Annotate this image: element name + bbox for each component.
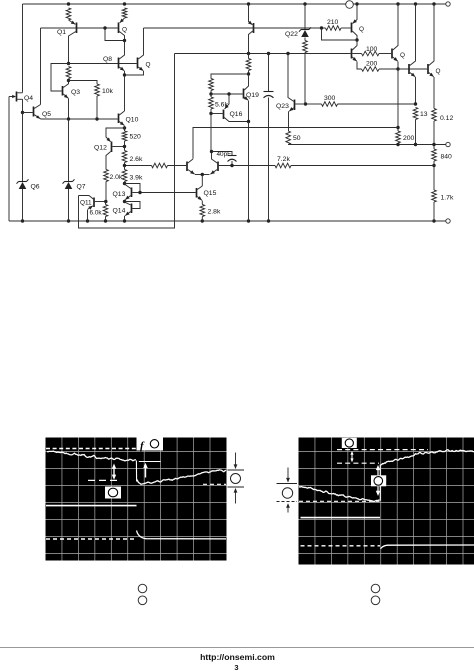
right scope mid solid trace <box>301 517 381 519</box>
svg-text:Q8: Q8 <box>103 56 112 63</box>
node bottom rail junction x=434 <box>432 219 435 222</box>
resistor 7.2k <box>275 163 291 168</box>
svg-text:300: 300 <box>324 95 336 102</box>
transistor Q output NPN #2 <box>408 64 410 74</box>
svg-text:Q16: Q16 <box>230 111 243 118</box>
transistor Q driver NPN <box>351 49 353 59</box>
left scope f marker box <box>137 438 164 451</box>
transistor diff pair right <box>217 162 219 172</box>
right oscillogram grid <box>299 438 474 565</box>
svg-text:Q: Q <box>400 52 405 59</box>
terminal output pin rail B <box>446 142 450 146</box>
wire Q19 base <box>211 93 243 95</box>
node junction x398 wireA <box>396 126 399 129</box>
svg-text:Q15: Q15 <box>204 190 217 197</box>
svg-text:840: 840 <box>441 154 453 161</box>
resistor 200 vertical <box>396 131 401 143</box>
wire A y127.5 from diff collector to output base <box>193 128 398 159</box>
node top rail junction x=434 <box>432 2 435 5</box>
node Q3 collector junction <box>67 79 70 82</box>
node diff right collector junction <box>210 150 213 153</box>
svg-text:520: 520 <box>130 134 142 141</box>
right scope external measure line <box>277 483 298 485</box>
right scope external dashed line <box>277 501 298 503</box>
resistor 210 <box>326 26 342 31</box>
node bottom rail junction x=105.5 <box>104 219 107 222</box>
transistor Q11 (PNP) <box>93 198 95 208</box>
terminal top-right output pin <box>446 2 450 6</box>
right scope measure arrow through box <box>377 467 379 475</box>
node VCC terminal circle on top rail <box>346 1 354 9</box>
resistor 0.12 <box>432 109 437 122</box>
node bottom rail junction x=248.5 <box>247 219 250 222</box>
node diff-left base junction <box>123 164 126 167</box>
node junction y104 left <box>304 102 307 105</box>
wire output rail B y144.5 <box>288 144 446 146</box>
transistor Q10 <box>118 114 120 124</box>
figure reference circle <box>138 584 147 593</box>
resistor diode-PNP emitter degeneration <box>122 8 127 18</box>
figure reference circle <box>138 596 147 605</box>
node top rail junction x=415.5 <box>414 2 417 5</box>
right scope circle marker box top <box>342 438 357 448</box>
resistor 2.6k <box>124 147 126 151</box>
node top rail junction x=124.5 <box>123 2 126 5</box>
node bottom rail junction x=268.5 <box>267 219 270 222</box>
wire Q3 emitter down to y119 <box>68 98 70 119</box>
svg-text:Q3: Q3 <box>71 89 80 96</box>
node top rail junction x=398 <box>396 2 399 5</box>
left scope bottom trace after step <box>137 531 227 539</box>
node junction x268.5 <box>267 52 270 55</box>
node collector tie junction <box>123 39 126 42</box>
wire left rail down to Q4 drain <box>22 4 24 93</box>
left oscillogram grid <box>46 438 227 561</box>
svg-text:3: 3 <box>234 663 238 671</box>
svg-text:Q11: Q11 <box>80 200 92 207</box>
svg-text:3.9k: 3.9k <box>130 175 143 182</box>
left scope measure arrow double <box>113 466 115 477</box>
wire 7.2k feedback y165.5 <box>219 165 275 167</box>
node Q13 collector junction <box>123 182 126 185</box>
capacitor series on x268.5 column <box>268 54 270 92</box>
node bottom rail junction x=22.5 <box>21 219 24 222</box>
resistor 10k <box>95 84 100 96</box>
svg-text:13: 13 <box>420 111 428 118</box>
wire L feedback to collector node <box>322 28 358 40</box>
node Q8 emitter junction <box>123 73 126 76</box>
wire Q16 base column down to diff collector <box>210 114 212 152</box>
wire diff tail to Q15 <box>201 175 203 187</box>
resistor 6.0k <box>105 202 107 205</box>
terminal bottom-right pin <box>446 219 450 223</box>
resistor 100 horizontal <box>352 53 361 55</box>
node Q12 base junction <box>123 145 126 148</box>
right scope small double arrow <box>351 453 353 462</box>
node top rail junction x=305 <box>303 2 306 5</box>
node rail B junction x=434 <box>432 143 435 146</box>
right scope dashed level line <box>299 500 380 502</box>
resistor 13 <box>413 108 418 120</box>
svg-text:Q10: Q10 <box>126 117 139 124</box>
node Q5 gate junction <box>21 111 24 114</box>
svg-text:0.12: 0.12 <box>440 115 453 122</box>
wire diode tie base-collector <box>105 28 125 41</box>
wire Q5 source rail y119 to Q10 base <box>41 118 118 120</box>
transistor Q19 <box>243 89 245 99</box>
node junction Q16 emitter tap <box>227 92 230 95</box>
wire PNP mirror base rail y28 (Q1 base) <box>41 27 118 29</box>
left scope external circle marker <box>231 474 241 484</box>
right scope lower trace left <box>299 487 380 502</box>
footer rule <box>0 647 474 649</box>
resistor 520 <box>124 128 126 131</box>
transistor Q (diode-connected PNP mirror) <box>120 18 125 23</box>
transistor Q5 (JFET input) <box>33 107 35 117</box>
node junction y104 right <box>414 102 417 105</box>
zener Q22 with resistor <box>304 4 306 30</box>
node bottom rail junction x=124.5 <box>123 219 126 222</box>
svg-text:50: 50 <box>293 135 301 142</box>
svg-text:1.7k: 1.7k <box>441 195 454 202</box>
left scope mid solid trace <box>46 505 137 507</box>
node rail B junction x=415.5 <box>414 143 417 146</box>
resistor 50 <box>286 131 291 145</box>
resistor 5.6k <box>210 94 212 97</box>
svg-text:Q: Q <box>122 27 127 34</box>
node junction x248.5 <box>247 52 250 55</box>
resistor 2.0k <box>104 170 109 182</box>
svg-text:2.0k: 2.0k <box>110 174 123 181</box>
transistor diff pair left <box>186 162 188 172</box>
node junction Q19 collector node <box>247 72 250 75</box>
svg-text:Q: Q <box>436 68 441 75</box>
node junction Q3 emitter / y119 <box>67 117 70 120</box>
wire y69 to output bases <box>398 68 427 70</box>
left scope step edge <box>135 461 137 482</box>
right scope dashed reference rows <box>337 449 428 451</box>
transistor Q (cascode pair right) <box>137 58 139 69</box>
svg-text:http://onsemi.com: http://onsemi.com <box>200 652 275 662</box>
wire Q4 gate column down to bottom rail <box>8 97 10 222</box>
wire x248.5 down to bottom rail <box>248 122 250 222</box>
figure reference circle <box>371 596 380 605</box>
svg-text:Q19: Q19 <box>246 92 259 99</box>
wire Q8 emitters down to Q10 collector <box>124 75 126 111</box>
resistor 3.9k <box>124 166 126 170</box>
wire to 10k resistor <box>69 81 98 85</box>
node Q11 base junction <box>104 200 107 203</box>
resistor between Q3 base and collector <box>66 67 71 79</box>
transistor Q output NPN #3 <box>427 64 429 74</box>
wire y104 with resistor 300 <box>306 103 322 105</box>
node junction Q16 base node <box>209 112 212 115</box>
wire top supply rail <box>23 3 446 5</box>
node 40pF bottom junction <box>230 164 233 167</box>
svg-text:Q1: Q1 <box>57 29 66 36</box>
resistor upper of 5.6k chain <box>209 79 214 91</box>
node Q10 emitter junction <box>123 126 126 129</box>
svg-text:Q14: Q14 <box>113 208 126 215</box>
svg-text:10k: 10k <box>102 88 114 95</box>
svg-text:Q22: Q22 <box>285 31 298 38</box>
transistor Q top-right PNP driver <box>351 23 353 33</box>
wire Q13 collector-base tie <box>125 184 141 193</box>
node diff emitters junction <box>201 173 204 176</box>
right scope external arrow down <box>287 468 289 482</box>
svg-text:Q4: Q4 <box>24 95 33 102</box>
node top rail junction x=68.5 <box>67 2 70 5</box>
svg-text:Q: Q <box>146 62 151 69</box>
left scope measure arrow up <box>145 467 147 478</box>
left scope circle marker box <box>105 487 121 499</box>
left scope right-edge dashes <box>203 483 226 485</box>
transistor Q4 (JFET input) <box>16 92 18 102</box>
right scope step edge <box>379 465 381 501</box>
wire Q5 drain up to PNP mirror base rail <box>40 28 42 105</box>
svg-text:210: 210 <box>327 19 339 26</box>
transistor Q output NPN #1 <box>391 49 393 59</box>
left scope upper trace before step <box>47 451 136 461</box>
node rail B junction x=398 <box>396 143 399 146</box>
svg-text:Q23: Q23 <box>276 103 289 110</box>
node base tie junction <box>103 26 106 29</box>
left scope top dashed reference <box>46 448 137 450</box>
left scope step-top reference line <box>139 461 161 463</box>
zener Q6 <box>22 178 24 182</box>
wire bottom rail <box>9 220 446 222</box>
node bottom rail junction x=87.5 <box>86 219 89 222</box>
right scope upper trace right <box>381 450 474 465</box>
svg-text:Q12: Q12 <box>94 145 107 152</box>
right oscillogram background <box>299 438 474 565</box>
resistor 840 <box>433 145 435 150</box>
node bottom rail junction x=202.3 <box>201 219 204 222</box>
resistor Q1 emitter degeneration <box>66 8 71 20</box>
capacitor 40pF <box>212 152 233 156</box>
right scope external circle marker <box>282 488 292 498</box>
svg-text:Q: Q <box>359 26 364 33</box>
svg-text:Q6: Q6 <box>31 184 40 191</box>
figure reference circle <box>371 584 380 593</box>
svg-text:200: 200 <box>403 135 415 142</box>
right scope external arrow up <box>287 504 289 513</box>
node junction x398 y69 <box>396 67 399 70</box>
transistor Q23 (PNP) <box>288 54 294 102</box>
right scope bottom dashed trace <box>301 545 381 547</box>
wire Q8 base rail y63.5 <box>69 63 137 65</box>
svg-text:Q5: Q5 <box>42 111 51 118</box>
svg-text:2.8k: 2.8k <box>208 209 221 216</box>
node Q13 base junction <box>138 191 141 194</box>
svg-text:2.6k: 2.6k <box>130 156 143 163</box>
right scope bottom trace after step <box>381 545 474 549</box>
svg-text:Q7: Q7 <box>77 184 86 191</box>
svg-text:6.0k: 6.0k <box>90 210 103 217</box>
svg-text:7.2k: 7.2k <box>277 156 290 163</box>
left scope level ticks <box>88 479 118 481</box>
wire Q4 source to Q5 gate and Q6 column <box>22 99 24 112</box>
svg-text:100: 100 <box>366 46 378 53</box>
wire right PNP base rail y28 <box>144 27 326 29</box>
node Q13/Q14 junction <box>123 200 126 203</box>
svg-text:40pF: 40pF <box>217 151 232 158</box>
svg-text:200: 200 <box>366 61 378 68</box>
node Q23 collector top junction <box>286 52 289 55</box>
node 210 left junction <box>320 26 323 29</box>
transistor Q13 (diode connected) <box>125 184 131 189</box>
transistor Q8 (cascode) <box>118 58 120 69</box>
left scope external measure lines <box>228 469 245 471</box>
transistor Q3 <box>62 86 64 96</box>
node junction Q19 emitter / Q16 collector <box>247 120 250 123</box>
transistor Q15 <box>196 188 198 198</box>
node Q1 collector / Q8 base rail junction <box>67 62 70 65</box>
node junction 10k bottom / y119 <box>95 117 98 120</box>
resistor 2.8k <box>200 205 205 217</box>
transistor Q1 (PNP mirror) <box>69 20 76 24</box>
node top rail junction x=248.5 <box>247 2 250 5</box>
node junction Q19 base node <box>209 92 212 95</box>
left scope external arrow up <box>235 489 237 504</box>
transistor Q12 (PNP) <box>106 128 125 142</box>
node driver collector junction <box>355 38 358 41</box>
resistor diff base horizontal <box>125 165 152 167</box>
right scope circle marker box mid <box>371 475 386 486</box>
transistor Q14 (diode connected) <box>125 202 131 205</box>
node top rail junction x=357 <box>355 2 358 5</box>
wire to 5.6k chain <box>211 74 249 79</box>
left scope external arrow down <box>235 453 237 469</box>
zener Q7 <box>68 119 70 182</box>
transistor Q16 (PNP) <box>225 94 229 109</box>
node bottom rail junction x=68.5 <box>67 219 70 222</box>
left scope upper trace after step <box>137 470 226 484</box>
resistor 1.7k <box>433 166 435 191</box>
wire Q3 base loop <box>51 64 69 92</box>
svg-text:Q13: Q13 <box>113 191 126 198</box>
wire x398 down to wire A <box>397 69 399 131</box>
transistor PNP current source upper-right of mirror <box>249 4 253 25</box>
resistor 200 horizontal <box>362 67 380 72</box>
left oscillogram background <box>46 438 227 561</box>
wire bias rail y53.5 <box>175 53 351 55</box>
node junction 7.2k right end <box>432 164 435 167</box>
wire Q11 bias box loop <box>79 54 175 229</box>
resistor Q19 collector feed <box>248 54 250 59</box>
left scope bottom dashed trace <box>46 538 135 540</box>
